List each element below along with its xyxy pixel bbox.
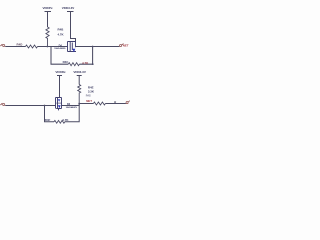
svg-text:1N4148WS: 1N4148WS	[54, 47, 66, 50]
svg-text:4.7K: 4.7K	[62, 118, 69, 122]
svg-text:R4D: R4D	[17, 42, 23, 46]
svg-text:NET: NET	[86, 99, 92, 103]
svg-text:VDDRx: VDDRx	[55, 70, 66, 74]
svg-text:R4B: R4B	[58, 27, 64, 31]
svg-text:3.3K: 3.3K	[88, 90, 95, 94]
svg-text:4.7K: 4.7K	[82, 61, 89, 65]
svg-text:1N4148WS: 1N4148WS	[66, 106, 78, 109]
svg-text:4.7K: 4.7K	[58, 32, 65, 36]
svg-text:R4G: R4G	[86, 94, 91, 97]
svg-text:R4C: R4C	[63, 60, 70, 64]
svg-text:VDDPx: VDDPx	[42, 6, 52, 10]
svg-text:NET: NET	[123, 43, 129, 47]
svg-text:VDD3.3V: VDD3.3V	[73, 70, 86, 74]
svg-text:VDD3.3V: VDD3.3V	[62, 6, 75, 10]
svg-text:R4F: R4F	[45, 118, 51, 122]
